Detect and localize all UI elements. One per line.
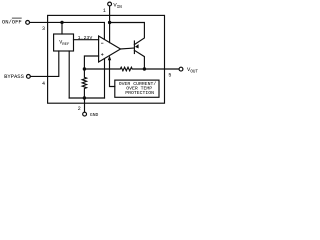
wire VOUT rail to pin [144,68,179,70]
junction dot feedback node [83,67,86,70]
wire VREF output to error amp inverting input [74,39,99,41]
pin 2 terminal GND [83,112,87,116]
svg-text:VREF: VREF [59,40,70,47]
IC block outline [48,15,165,103]
svg-text:VIN: VIN [113,1,122,10]
wire VREF right lead to ground rail [68,51,70,98]
wire GND pin [84,98,86,112]
wire VIN rail to pass transistor emitter [110,23,145,45]
pass transistor collector lead to VOUT rail [134,50,144,69]
svg-text:VOUT: VOUT [187,66,198,75]
svg-text:1.23V: 1.23V [78,35,93,41]
svg-text:GND: GND [90,112,99,118]
resistor R2 feedback bottom [82,71,86,98]
VREF box [54,34,74,51]
ON-OFF overline [12,17,22,19]
svg-text:PROTECTION: PROTECTION [125,90,154,96]
error amp plus marker [101,53,103,55]
error amp U1 triangle [99,36,121,62]
junction dot VOUT rail [143,67,146,70]
wire amp ground lead [104,59,106,98]
pin 4 terminal BYPASS [27,75,31,79]
pin 1 terminal VIN [108,2,112,6]
pass transistor Q1 base bar [133,41,135,54]
svg-text:3: 3 [42,26,45,32]
resistor R1 feedback top [86,67,144,71]
wire internal ground rail [69,97,104,99]
pass transistor emitter arrow [135,44,139,48]
svg-text:ON/OFF: ON/OFF [2,19,22,26]
wire ON/OFF junction down to VREF [61,23,63,35]
wire protection output to error amp shutdown [110,59,115,87]
error amp minus marker [101,42,103,45]
wire feedback node to non-inverting input [84,56,98,69]
svg-text:4: 4 [42,81,45,87]
wire amp output to base [121,48,135,49]
over current / over temp protection box [115,80,159,97]
svg-text:BYPASS: BYPASS [4,73,25,80]
svg-text:2: 2 [78,106,81,112]
junction dot VIN rail [108,21,111,24]
svg-text:1: 1 [103,8,106,14]
pin 5 terminal VOUT [179,67,183,71]
wire VIN vertical to internal rail and amp supply [109,6,111,43]
junction dot ground rail GND [83,96,86,99]
svg-text:5: 5 [168,73,171,79]
pin 3 terminal ON/OFF [26,21,30,25]
protection shutdown arrowhead [108,55,111,60]
wire VREF left lead to BYPASS pin [31,51,59,76]
junction dot ON/OFF to VREF [60,21,63,24]
wire ON/OFF pin to error amp enable [30,22,105,39]
